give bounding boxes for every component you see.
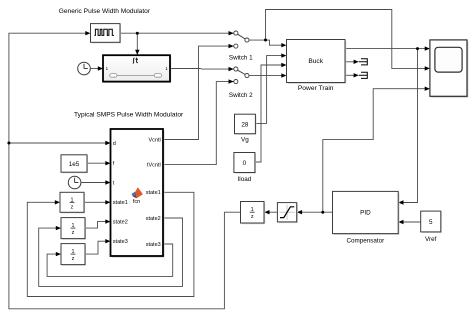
svg-text:state1: state1: [113, 200, 128, 206]
svg-text:5: 5: [429, 219, 433, 226]
svg-text:Typical SMPS Pulse Width Modul: Typical SMPS Pulse Width Modulator: [74, 111, 184, 118]
svg-text:Compensator: Compensator: [346, 237, 384, 244]
svg-text:z: z: [71, 204, 74, 210]
svg-text:PID: PID: [360, 210, 371, 217]
svg-text:d: d: [113, 141, 116, 147]
svg-text:Vg: Vg: [241, 137, 249, 144]
svg-text:Generic Pulse Width Modulator: Generic Pulse Width Modulator: [59, 8, 151, 15]
svg-text:Power Train: Power Train: [298, 85, 334, 92]
svg-text:z: z: [251, 214, 254, 220]
svg-text:state1: state1: [146, 190, 161, 196]
svg-text:28: 28: [241, 121, 249, 128]
svg-text:0: 0: [243, 160, 247, 167]
svg-text:state3: state3: [113, 239, 128, 245]
svg-text:state3: state3: [146, 242, 161, 248]
svg-text:fcn: fcn: [133, 199, 140, 205]
svg-text:state2: state2: [113, 220, 128, 226]
svg-text:z: z: [72, 230, 75, 236]
svg-text:1e5: 1e5: [69, 161, 80, 168]
svg-text:Vcntl: Vcntl: [148, 137, 160, 143]
svg-text:state2: state2: [146, 216, 161, 222]
svg-text:Switch 2: Switch 2: [229, 92, 253, 99]
svg-text:Vref: Vref: [425, 236, 437, 243]
svg-text:Buck: Buck: [308, 58, 323, 65]
svg-text:Switch 1: Switch 1: [229, 54, 253, 61]
svg-text:z: z: [72, 256, 75, 262]
svg-text:tVcntl: tVcntl: [147, 163, 161, 169]
svg-text:Iload: Iload: [238, 176, 252, 183]
